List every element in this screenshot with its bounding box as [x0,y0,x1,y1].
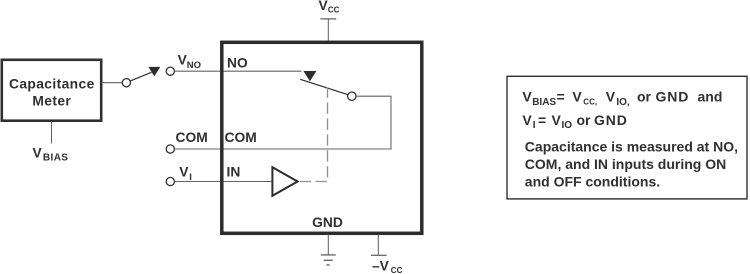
svg-text:GND: GND [312,215,343,230]
node COM circle [166,145,174,153]
label -Vcc [372,258,403,274]
svg-text:V: V [606,89,616,105]
internal switch circle [348,92,356,100]
svg-text:–V: –V [372,258,390,273]
switch blade [130,72,151,81]
wire -Vcc to box [377,235,379,256]
svg-text:CC: CC [328,6,340,15]
svg-text:V: V [522,89,532,105]
svg-text:V: V [572,89,582,105]
ground symbol [321,255,336,265]
svg-text:NO: NO [227,55,248,70]
wire VI to IN pin [175,181,221,183]
svg-text:Capacitance is measured at NO,: Capacitance is measured at NO, [525,139,738,155]
label VI [179,165,192,184]
svg-text:IO,: IO, [616,97,630,108]
svg-text:COM: COM [225,130,257,145]
wire Vcc to box [327,19,329,41]
svg-text:CC: CC [391,266,403,274]
svg-text:BIAS: BIAS [43,153,69,164]
svg-text:GND: GND [594,112,628,128]
note paragraph [525,139,738,190]
capacitance meter label [9,77,95,109]
svg-text:IO: IO [562,120,573,131]
svg-text:NO: NO [187,60,201,71]
svg-text:COM: COM [176,130,208,145]
-Vcc terminal bar [371,254,387,256]
label VNO [178,53,201,71]
wire VNO to NO pin [175,70,221,72]
svg-text:V: V [522,112,532,128]
note box [507,76,747,199]
svg-text:CC,: CC, [583,98,597,107]
svg-text:and: and [698,89,723,105]
internal switch blade [300,79,348,94]
svg-text:BIAS: BIAS [532,97,556,108]
wire NO internal [224,70,302,72]
svg-text:or: or [637,89,652,105]
svg-text:COM, and IN inputs during ON: COM, and IN inputs during ON [525,156,726,172]
label Vcc [319,0,340,15]
wire meter to switch pole [102,82,123,84]
svg-text:and OFF conditions.: and OFF conditions. [525,174,660,190]
note line 2 [522,112,627,131]
node VNO circle [166,67,174,75]
dashed wire buffer to switch [300,88,328,182]
wire switch to COM (L shape) [356,96,391,149]
svg-text:Meter: Meter [32,94,71,109]
wire GND to ground [327,235,329,255]
note line 1 [522,89,722,108]
svg-text:V: V [179,165,189,180]
svg-text:I: I [533,120,536,131]
switch pole circle [122,79,130,87]
svg-text:=: = [538,112,546,128]
switch arrowhead [148,67,160,77]
buffer amplifier [272,167,297,196]
DUT box [222,42,422,233]
svg-text:GND: GND [656,89,690,105]
svg-text:V: V [552,112,562,128]
Vcc terminal bar [320,18,336,20]
internal switch arrowhead [303,71,316,81]
svg-text:Capacitance: Capacitance [9,77,95,92]
wire COM internal [224,148,392,150]
wire IN internal [224,181,273,183]
svg-text:V: V [33,145,43,160]
node VI circle [166,177,174,185]
label VBIAS [33,145,69,163]
wire COM to COM pin [175,148,221,150]
svg-text:IN: IN [227,164,241,179]
capacitance meter box [2,60,101,121]
wire VBIAS stub [51,121,53,143]
svg-text:or: or [577,112,592,128]
svg-text:=: = [557,89,565,105]
